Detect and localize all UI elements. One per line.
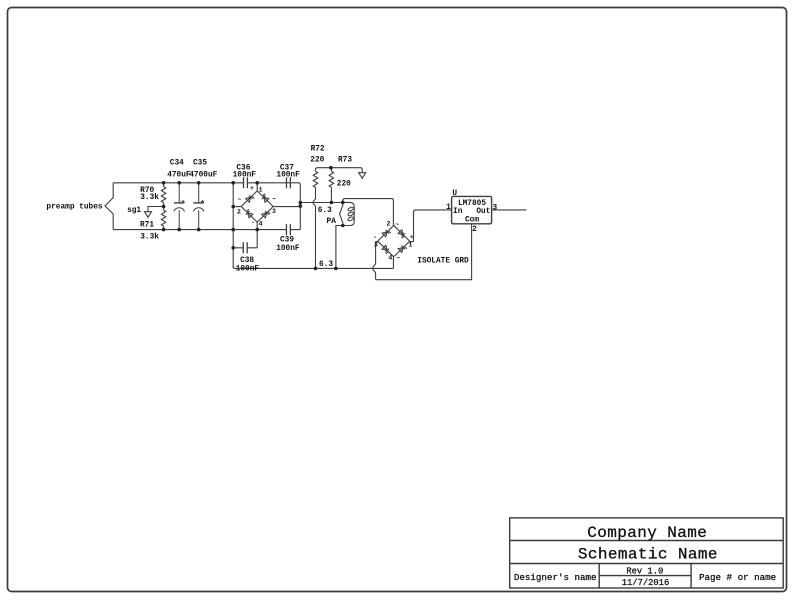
- svg-text:C34: C34: [170, 159, 184, 167]
- svg-text:+: +: [250, 185, 254, 192]
- svg-text:11/7/2016: 11/7/2016: [622, 578, 670, 588]
- svg-text:U: U: [452, 190, 457, 198]
- svg-text:4: 4: [259, 220, 263, 227]
- svg-text:2: 2: [472, 226, 477, 234]
- svg-text:3: 3: [272, 208, 276, 215]
- svg-text:~: ~: [238, 197, 242, 204]
- svg-text:R72: R72: [311, 146, 325, 154]
- svg-text:100nF: 100nF: [233, 172, 257, 180]
- svg-text:-: -: [373, 234, 377, 241]
- svg-text:C39: C39: [280, 237, 294, 245]
- svg-text:Com: Com: [465, 217, 479, 225]
- svg-text:+: +: [410, 234, 414, 241]
- svg-text:PA: PA: [327, 218, 337, 226]
- svg-text:6.3: 6.3: [318, 207, 332, 215]
- svg-text:1: 1: [409, 242, 413, 249]
- svg-text:3: 3: [492, 205, 497, 213]
- svg-text:R73: R73: [338, 156, 352, 164]
- svg-text:100nF: 100nF: [276, 172, 300, 180]
- svg-text:100nF: 100nF: [276, 245, 300, 253]
- svg-text:C38: C38: [240, 257, 254, 265]
- svg-text:6.3: 6.3: [319, 261, 333, 269]
- svg-text:1: 1: [446, 204, 451, 212]
- svg-text:Out: Out: [476, 208, 490, 216]
- svg-text:-: -: [251, 219, 255, 226]
- svg-text:3: 3: [374, 242, 378, 249]
- svg-text:4: 4: [388, 254, 392, 261]
- svg-text:Page # or name: Page # or name: [699, 572, 776, 583]
- svg-text:3.3k: 3.3k: [140, 194, 159, 202]
- svg-text:Company Name: Company Name: [587, 524, 707, 542]
- svg-text:R71: R71: [140, 221, 154, 229]
- svg-text:Rev 1.0: Rev 1.0: [626, 566, 663, 576]
- svg-text:470uF: 470uF: [167, 172, 191, 180]
- svg-text:100nF: 100nF: [236, 265, 260, 273]
- svg-text:C35: C35: [193, 159, 207, 167]
- svg-text:4700uF: 4700uF: [189, 172, 217, 180]
- svg-text:~: ~: [397, 255, 401, 262]
- svg-text:220: 220: [337, 181, 351, 189]
- svg-text:In: In: [453, 208, 463, 216]
- svg-text:preamp tubes: preamp tubes: [46, 203, 102, 211]
- svg-text:Schematic Name: Schematic Name: [578, 546, 718, 564]
- svg-text:~: ~: [272, 196, 276, 203]
- svg-text:220: 220: [310, 156, 324, 164]
- svg-text:2: 2: [386, 221, 390, 228]
- svg-text:sg1: sg1: [127, 207, 141, 215]
- svg-text:Designer's name: Designer's name: [514, 572, 597, 583]
- svg-text:2: 2: [237, 208, 241, 215]
- svg-text:ISOLATE GRD: ISOLATE GRD: [417, 257, 469, 265]
- svg-text:1: 1: [259, 186, 263, 193]
- svg-text:~: ~: [395, 221, 399, 228]
- svg-text:3.3k: 3.3k: [140, 234, 159, 242]
